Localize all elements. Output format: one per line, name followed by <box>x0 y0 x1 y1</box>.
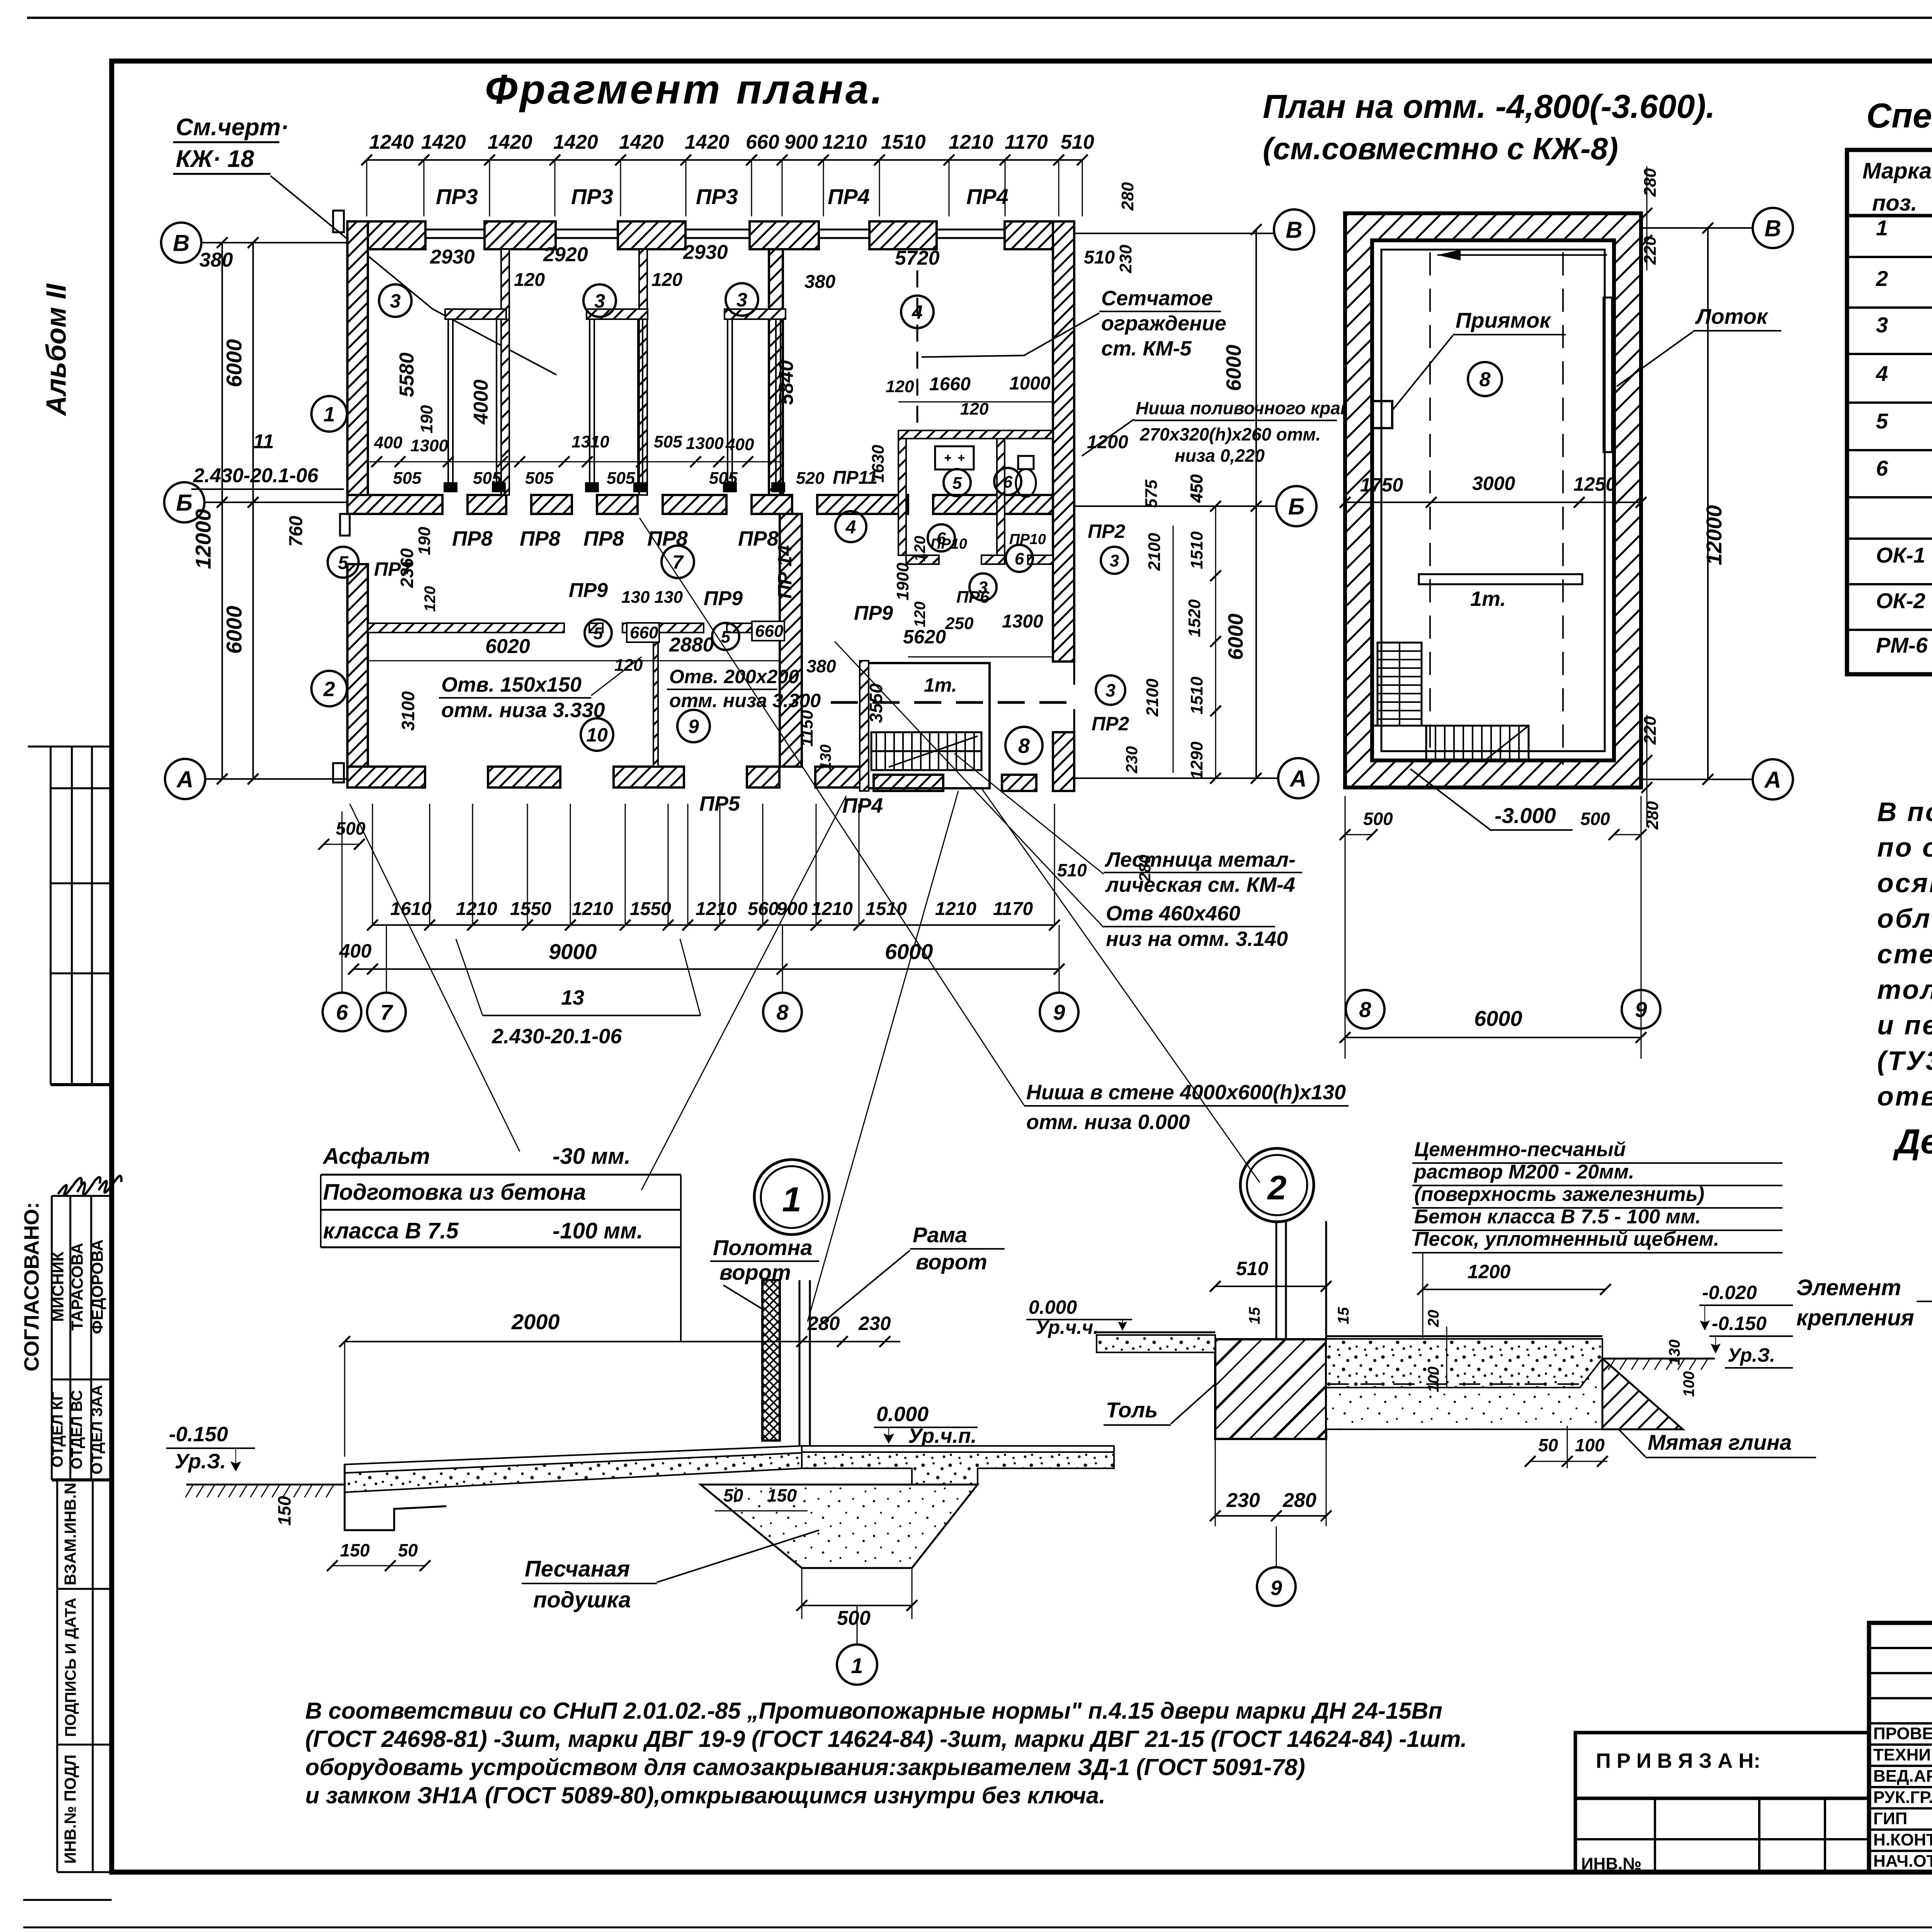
signature table <box>1869 1623 1932 1872</box>
dashed column lines <box>1429 252 1431 765</box>
svg-text:1310: 1310 <box>571 432 609 451</box>
svg-text:380: 380 <box>806 656 836 676</box>
svg-text:3: 3 <box>1110 551 1119 570</box>
svg-text:Полотна: Полотна <box>713 1235 813 1260</box>
svg-text:низа 0,220: низа 0,220 <box>1175 446 1265 466</box>
thick wall left of stair zone <box>780 514 802 767</box>
gate post crosshatched <box>762 1280 780 1440</box>
svg-text:1550: 1550 <box>510 899 551 919</box>
svg-text:50: 50 <box>398 1540 418 1560</box>
svg-text:А: А <box>1289 766 1306 792</box>
svg-text:раствор М200 - 20мм.: раствор М200 - 20мм. <box>1413 1161 1634 1183</box>
svg-text:9000: 9000 <box>549 939 597 964</box>
svg-text:осями 7-8 установить звукопогл: осями 7-8 установить звукопоглощающую <box>1877 868 1932 898</box>
svg-text:150: 150 <box>767 1485 797 1505</box>
svg-text:2100: 2100 <box>1145 533 1164 571</box>
lower-left stamp box <box>1575 1798 1869 1872</box>
left margin upper table <box>28 747 112 1085</box>
svg-text:1610: 1610 <box>390 899 432 919</box>
detail1 small circle bottom <box>857 1605 858 1644</box>
svg-text:0.000: 0.000 <box>876 1403 929 1426</box>
svg-text:510: 510 <box>1061 131 1094 153</box>
priyamok pit <box>1373 401 1392 428</box>
right vertical dim line <box>1255 230 1257 778</box>
svg-text:8: 8 <box>1480 369 1491 391</box>
svg-text:120: 120 <box>422 586 439 612</box>
sanitary block top wall <box>898 430 1053 439</box>
svg-text:3: 3 <box>594 290 605 312</box>
svg-text:3: 3 <box>1105 680 1116 701</box>
top extension lines <box>366 160 367 216</box>
svg-text:280: 280 <box>807 1313 840 1334</box>
svg-text:6000: 6000 <box>1222 345 1245 391</box>
svg-text:1510: 1510 <box>881 131 926 153</box>
monorail dashes upper room (fence) <box>917 270 918 429</box>
partition wall rooms3 a <box>501 249 509 495</box>
ramp slab <box>345 1446 802 1473</box>
svg-text:400: 400 <box>725 435 754 454</box>
svg-text:Рама: Рама <box>913 1223 967 1247</box>
svg-text:ИНВ.№: ИНВ.№ <box>1581 1854 1641 1873</box>
svg-text:ГИП: ГИП <box>1873 1809 1907 1828</box>
svg-text:280: 280 <box>1641 168 1660 197</box>
svg-text:и перфорированными алюминиевым: и перфорированными алюминиевыми листами <box>1877 1010 1932 1040</box>
svg-text:ПРОВЕР.: ПРОВЕР. <box>1873 1724 1932 1743</box>
svg-text:Б: Б <box>176 490 192 516</box>
svg-text:1210: 1210 <box>572 899 613 919</box>
svg-text:РУК.ГР.: РУК.ГР. <box>1873 1788 1932 1807</box>
svg-text:1420: 1420 <box>553 131 598 153</box>
svg-text:3100: 3100 <box>398 691 418 731</box>
svg-text:2: 2 <box>1267 1168 1287 1207</box>
svg-text:150: 150 <box>340 1540 370 1560</box>
stair room outline <box>864 663 990 788</box>
svg-text:отм. низа 3.330: отм. низа 3.330 <box>441 699 605 722</box>
svg-text:12000: 12000 <box>191 509 215 569</box>
svg-text:13: 13 <box>561 986 584 1009</box>
svg-text:ВЕД.АРХ.: ВЕД.АРХ. <box>1873 1767 1932 1786</box>
svg-text:1300: 1300 <box>686 434 724 453</box>
pos circle 5 left <box>328 547 359 578</box>
svg-text:3550: 3550 <box>866 683 886 723</box>
room 3 small circle d <box>969 573 997 600</box>
svg-text:РМ-6: РМ-6 <box>1876 633 1928 657</box>
stair arrow diagonal <box>889 736 978 767</box>
svg-text:380: 380 <box>804 272 835 292</box>
svg-text:НАЧ.ОТД.: НАЧ.ОТД. <box>1873 1852 1932 1871</box>
top interior arrow line <box>1437 254 1607 256</box>
svg-text:1200: 1200 <box>1468 1261 1510 1282</box>
leader from note into plan <box>270 176 556 375</box>
room 4 circle <box>901 296 934 328</box>
svg-text:ТЕХНИК: ТЕХНИК <box>1873 1745 1932 1764</box>
svg-text:6: 6 <box>1003 473 1013 492</box>
svg-text:0.000: 0.000 <box>1029 1296 1077 1318</box>
svg-text:ограждение: ограждение <box>1101 312 1226 335</box>
svg-text:280: 280 <box>1282 1489 1316 1512</box>
svg-text:1170: 1170 <box>1005 131 1048 153</box>
svg-text:8: 8 <box>776 1000 789 1024</box>
right plan walls <box>1345 213 1641 787</box>
window symbols in top wall openings <box>425 229 485 231</box>
svg-text:2880: 2880 <box>669 634 714 656</box>
svg-text:250: 250 <box>945 614 974 633</box>
svg-text:1300: 1300 <box>1002 611 1043 632</box>
room 8 circle <box>1005 727 1043 764</box>
svg-text:505: 505 <box>654 432 682 451</box>
stall partitions in rooms 3 <box>448 317 453 491</box>
svg-text:5: 5 <box>594 624 603 643</box>
room 3 circle c <box>726 283 758 316</box>
thick wall rooms3/room4 <box>769 249 783 495</box>
svg-text:ПР10: ПР10 <box>930 536 967 552</box>
toilet <box>1016 469 1036 497</box>
svg-text:ПР3: ПР3 <box>436 184 478 209</box>
svg-text:ОТДЕЛ ВС: ОТДЕЛ ВС <box>68 1390 85 1469</box>
bottom wall (rooms 10-9) segments <box>347 767 425 787</box>
svg-text:230: 230 <box>1226 1489 1260 1512</box>
svg-text:3: 3 <box>1876 313 1888 337</box>
svg-text:ПР10: ПР10 <box>1009 531 1046 548</box>
room 8 circle <box>1468 362 1502 396</box>
svg-text:6000: 6000 <box>1474 1006 1522 1031</box>
svg-text:Лоток: Лоток <box>1695 304 1769 328</box>
detail2 foundation wall hatched <box>1215 1339 1326 1439</box>
room 6 circle b <box>928 524 955 551</box>
svg-text:Фрагмент плана.: Фрагмент плана. <box>485 66 885 112</box>
ramp left step <box>345 1464 446 1530</box>
svg-text:2: 2 <box>323 677 335 701</box>
svg-text:В соответствии со СНиП 2.01.02: В соответствии со СНиП 2.01.02.-85 „Прот… <box>305 1698 1442 1724</box>
svg-text:1т.: 1т. <box>924 674 957 696</box>
svg-text:6: 6 <box>1876 456 1888 480</box>
svg-text:9: 9 <box>1635 997 1647 1022</box>
axis extension verticals to circles <box>342 811 343 993</box>
svg-text:отверстий - 5мм.: отверстий - 5мм. <box>1877 1081 1932 1111</box>
svg-text:2.430-20.1-06: 2.430-20.1-06 <box>193 464 319 487</box>
svg-text:505: 505 <box>393 469 422 488</box>
svg-text:В: В <box>1286 217 1302 243</box>
svg-text:400: 400 <box>339 940 372 962</box>
right exterior wall upper <box>1053 221 1074 662</box>
soil wedge myataya glina <box>1602 1359 1683 1429</box>
svg-text:3: 3 <box>390 290 401 312</box>
svg-text:380: 380 <box>199 249 233 271</box>
svg-text:Бетон класса В 7.5 - 100 мм.: Бетон класса В 7.5 - 100 мм. <box>1414 1206 1701 1228</box>
svg-text:ПР8: ПР8 <box>583 527 624 550</box>
svg-text:-3.000: -3.000 <box>1495 803 1556 828</box>
svg-text:1170: 1170 <box>993 899 1033 919</box>
svg-text:-0.020: -0.020 <box>1702 1282 1757 1303</box>
svg-text:6: 6 <box>1015 549 1024 568</box>
svg-text:8: 8 <box>1018 734 1030 757</box>
svg-text:230: 230 <box>1116 245 1135 274</box>
gate frame thin posts <box>799 1280 801 1451</box>
svg-text:2920: 2920 <box>543 243 588 266</box>
svg-text:ворот: ворот <box>916 1250 987 1274</box>
svg-text:2.430-20.1-06: 2.430-20.1-06 <box>492 1025 622 1048</box>
svg-text:500: 500 <box>1363 809 1393 829</box>
svg-text:1: 1 <box>1876 216 1888 240</box>
svg-text:ПР9: ПР9 <box>854 602 893 624</box>
svg-text:3: 3 <box>736 289 747 311</box>
svg-text:100: 100 <box>1680 1371 1697 1397</box>
svg-text:120: 120 <box>514 270 545 290</box>
svg-text:Альбом II: Альбом II <box>41 283 72 416</box>
window sill mark top-left <box>333 211 344 232</box>
svg-text:5: 5 <box>338 553 349 573</box>
detail2 sand layer <box>1326 1359 1602 1429</box>
svg-text:2360: 2360 <box>397 548 417 588</box>
svg-text:400: 400 <box>374 433 403 452</box>
svg-text:6000: 6000 <box>222 339 246 388</box>
small door jog left wall <box>340 514 350 536</box>
svg-text:Ур.З.: Ур.З. <box>1728 1344 1775 1366</box>
svg-text:5: 5 <box>952 474 962 493</box>
left exterior wall lower <box>347 564 368 787</box>
svg-text:450: 450 <box>1187 474 1206 503</box>
svg-text:(ГОСТ 24698-81) -3шт, марки ДВ: (ГОСТ 24698-81) -3шт, марки ДВГ 19-9 (ГО… <box>305 1726 1467 1752</box>
svg-text:4: 4 <box>1876 361 1888 386</box>
svg-text:ПР8: ПР8 <box>738 527 779 550</box>
svg-text:15: 15 <box>1335 1307 1352 1324</box>
top dimension line <box>367 159 1082 161</box>
top exterior wall (axis V) segments <box>347 221 425 249</box>
svg-text:См.черт·: См.черт· <box>176 114 289 141</box>
svg-text:505: 505 <box>607 469 635 488</box>
svg-text:280: 280 <box>1118 182 1137 211</box>
svg-text:1т.: 1т. <box>1470 587 1506 611</box>
svg-text:Б: Б <box>1288 494 1304 520</box>
svg-text:6000: 6000 <box>1224 614 1247 660</box>
svg-text:190: 190 <box>415 527 434 555</box>
svg-text:520: 520 <box>796 469 825 488</box>
svg-text:575: 575 <box>1142 480 1161 508</box>
svg-text:СОГЛАСОВАНО:: СОГЛАСОВАНО: <box>20 1202 43 1371</box>
svg-text:и замком ЗН1А (ГОСТ 5089-80),: и замком ЗН1А (ГОСТ 5089-80),открывающим… <box>305 1782 1105 1808</box>
axis circle B right <box>1276 486 1316 526</box>
monorail beam <box>1419 574 1582 584</box>
stair bay bottom wall segments <box>874 775 943 791</box>
svg-text:1420: 1420 <box>421 131 466 153</box>
stairs lower flight <box>1426 726 1529 760</box>
svg-text:Мятая глина: Мятая глина <box>1648 1430 1792 1454</box>
svg-text:В помещениях воздухозаборных к: В помещениях воздухозаборных камер на ст… <box>1877 797 1932 827</box>
svg-text:-0.150: -0.150 <box>1712 1313 1767 1334</box>
svg-text:Асфальт: Асфальт <box>322 1144 430 1169</box>
svg-text:-30 мм.: -30 мм. <box>553 1144 631 1169</box>
svg-text:130 130: 130 130 <box>621 588 683 607</box>
svg-text:Ур.З.: Ур.З. <box>175 1450 226 1473</box>
pos circle 5 mid b <box>712 623 739 650</box>
svg-text:лическая см. КМ-4: лическая см. КМ-4 <box>1105 873 1295 896</box>
detail2 axis circle 9 <box>1276 1526 1277 1567</box>
axis circle 2 <box>311 671 347 706</box>
svg-text:1660: 1660 <box>929 374 971 395</box>
svg-text:-0.150: -0.150 <box>169 1423 228 1446</box>
svg-text:130: 130 <box>817 745 834 770</box>
svg-text:5840: 5840 <box>775 360 798 405</box>
svg-text:Марка,: Марка, <box>1862 158 1932 184</box>
svg-text:510: 510 <box>1057 860 1087 880</box>
axis circle V left <box>161 223 201 263</box>
svg-text:660: 660 <box>746 131 779 153</box>
left exterior wall upper <box>347 221 368 495</box>
dim 500 under foundation <box>802 1605 912 1606</box>
svg-text:ПР3: ПР3 <box>571 184 613 209</box>
axis circle 6 <box>323 993 361 1031</box>
svg-text:П Р И В Я З А Н:: П Р И В Я З А Н: <box>1596 1749 1760 1772</box>
svg-text:Н.КОНТР.: Н.КОНТР. <box>1873 1830 1932 1849</box>
svg-text:оборудовать устройством для са: оборудовать устройством для самозакрыван… <box>305 1754 1305 1780</box>
svg-text:1420: 1420 <box>488 131 532 153</box>
svg-text:12000: 12000 <box>1702 505 1726 565</box>
svg-text:510: 510 <box>1236 1258 1269 1279</box>
svg-text:ПР6: ПР6 <box>956 588 990 607</box>
svg-text:ПР9: ПР9 <box>569 579 608 602</box>
svg-text:ПР11: ПР11 <box>833 468 878 488</box>
svg-text:по осям 7и8 между осями Б-В и: по осям 7и8 между осями Б-В и по оси Б м… <box>1877 832 1932 862</box>
svg-text:ВЗАМ.ИНВ.N: ВЗАМ.ИНВ.N <box>61 1483 79 1585</box>
sheet top edge line <box>27 17 1932 19</box>
svg-text:отм. низа 0.000: отм. низа 0.000 <box>1026 1111 1190 1134</box>
room 3 circle b <box>583 284 616 317</box>
svg-text:ст. КМ-5: ст. КМ-5 <box>1101 337 1192 360</box>
svg-text:ПР 14: ПР 14 <box>774 545 796 599</box>
foundation block <box>701 1485 978 1568</box>
svg-text:9: 9 <box>1270 1577 1282 1600</box>
svg-text:50: 50 <box>723 1485 743 1505</box>
svg-text:ФЕДОРОВА: ФЕДОРОВА <box>88 1239 106 1334</box>
svg-text:облицовку, состоящую из матов: облицовку, состоящую из матов супертонко… <box>1877 903 1932 934</box>
svg-text:1210: 1210 <box>935 899 976 919</box>
svg-text:5: 5 <box>1876 409 1888 433</box>
svg-text:6: 6 <box>336 1000 348 1024</box>
pos circle 3 right b <box>1096 675 1125 705</box>
axis circle 1 <box>311 396 347 432</box>
left ground line + hatch <box>186 1484 348 1486</box>
svg-text:Сетчатое: Сетчатое <box>1101 287 1213 310</box>
detail2 wall above floor <box>1285 1221 1287 1339</box>
svg-text:толщиной 50мм, покрытых стекло: толщиной 50мм, покрытых стеклотканью ТСТ… <box>1877 975 1932 1005</box>
svg-text:510: 510 <box>1084 247 1115 268</box>
svg-text:Элемент: Элемент <box>1796 1275 1901 1300</box>
svg-text:900: 900 <box>784 131 818 153</box>
long leaders bottom left <box>350 804 520 1151</box>
svg-text:1510: 1510 <box>1187 531 1206 569</box>
svg-text:660: 660 <box>755 622 784 641</box>
svg-text:Спецификация элементов заполне: Спецификация элементов заполнения проемо… <box>1866 97 1932 135</box>
svg-text:(поверхность зажелезнить): (поверхность зажелезнить) <box>1414 1183 1704 1206</box>
svg-text:1290: 1290 <box>1187 742 1206 779</box>
svg-text:ПР4: ПР4 <box>828 184 870 209</box>
right wall door jog PR2 <box>1053 662 1074 732</box>
svg-text:ПР9: ПР9 <box>704 587 743 610</box>
right plan bottom axis circles <box>1346 990 1384 1029</box>
pos circle 4 room4 <box>835 511 866 542</box>
svg-text:ОТДЕЛ КГ: ОТДЕЛ КГ <box>49 1392 66 1468</box>
partition rooms10/9 <box>653 633 658 767</box>
axis circle B left <box>164 482 204 522</box>
sanitary partition vertical b <box>997 439 1005 564</box>
svg-text:6020: 6020 <box>485 635 530 658</box>
svg-text:6000: 6000 <box>222 606 246 654</box>
svg-text:1210: 1210 <box>822 131 867 153</box>
svg-text:1: 1 <box>782 1180 801 1219</box>
svg-text:1210: 1210 <box>949 131 993 153</box>
svg-text:Ниша поливочного крана: Ниша поливочного крана <box>1136 398 1361 418</box>
svg-text:5580: 5580 <box>396 352 418 397</box>
svg-text:1210: 1210 <box>696 899 737 919</box>
svg-text:500: 500 <box>837 1607 871 1629</box>
landing line <box>1372 725 1426 727</box>
svg-text:1000: 1000 <box>1009 373 1051 394</box>
svg-text:120: 120 <box>912 536 929 562</box>
axis circle A left <box>165 759 205 799</box>
svg-text:стекловолокна (ТУ21-01-224-75): стекловолокна (ТУ21-01-224-75), γ = 15кг… <box>1877 939 1932 969</box>
svg-text:1510: 1510 <box>1187 677 1206 714</box>
svg-text:8: 8 <box>1359 997 1371 1022</box>
floor right of gate <box>802 1446 1114 1452</box>
room 6 circle c <box>1006 545 1033 572</box>
svg-text:660: 660 <box>630 623 658 642</box>
svg-text:2930: 2930 <box>683 241 728 264</box>
pos circle 3 right a <box>1101 547 1128 574</box>
svg-text:505: 505 <box>473 469 502 488</box>
svg-text:9: 9 <box>688 716 699 737</box>
svg-text:Отв. 200х200: Отв. 200х200 <box>669 666 799 687</box>
sanitary bottom wall pieces <box>906 555 939 564</box>
lotok channel right <box>1604 298 1612 452</box>
approval signatures squiggles <box>58 1176 121 1195</box>
svg-text:КЖ· 18: КЖ· 18 <box>176 146 254 172</box>
svg-text:Отв 460х460: Отв 460х460 <box>1106 902 1240 925</box>
svg-text:100: 100 <box>1575 1435 1605 1455</box>
svg-text:подушка: подушка <box>533 1587 631 1612</box>
detail 1 big circle <box>754 1160 829 1235</box>
room 7 circle <box>662 546 694 578</box>
dash-dot line through room 8 <box>831 701 1070 704</box>
left wall pier at axis B <box>347 495 381 514</box>
svg-text:1300: 1300 <box>410 436 448 455</box>
spec table grid <box>1847 150 1932 674</box>
svg-text:1250: 1250 <box>1573 473 1616 495</box>
left vertical dim line <box>252 243 254 779</box>
room 9 circle <box>677 710 710 742</box>
detail2 floor left <box>1097 1332 1215 1333</box>
svg-text:1200: 1200 <box>1087 432 1128 452</box>
svg-text:Подготовка из бетона: Подготовка из бетона <box>323 1180 586 1205</box>
svg-text:2000: 2000 <box>511 1310 560 1334</box>
svg-text:поз.: поз. <box>1872 190 1917 216</box>
svg-text:3000: 3000 <box>1472 473 1515 494</box>
svg-text:(ТУ36-1947-76) с 14 % перфорац: (ТУ36-1947-76) с 14 % перфорации. Диамет… <box>1877 1046 1932 1076</box>
svg-text:20: 20 <box>1425 1310 1442 1328</box>
axis circle 9 <box>1040 993 1078 1031</box>
svg-text:7: 7 <box>380 1000 393 1024</box>
svg-text:1550: 1550 <box>630 899 671 919</box>
svg-text:120: 120 <box>960 400 989 418</box>
staircase treads <box>871 732 981 770</box>
room7 partition wall segments <box>368 623 564 633</box>
left margin lower boxes <box>57 1480 112 1872</box>
svg-text:отм. низа 3.300: отм. низа 3.300 <box>669 690 821 711</box>
svg-text:130: 130 <box>1666 1340 1683 1366</box>
svg-text:ТАРАСОВА: ТАРАСОВА <box>68 1243 86 1330</box>
left margin approvals table <box>52 1196 112 1480</box>
room 10 circle <box>581 718 613 751</box>
axis circle 8 <box>763 993 802 1031</box>
